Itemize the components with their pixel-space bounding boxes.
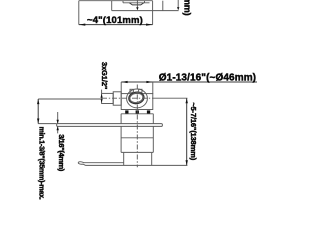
inlet fitting G1/2 nipple <box>102 93 114 103</box>
center line horizontal (dash-dot) <box>102 97 156 99</box>
handle lever inner ellipse <box>129 92 143 103</box>
label 3xG1/2": rotated text <box>100 62 109 90</box>
inlet fitting flange <box>113 92 121 105</box>
dimension min.1-3/8"(35mm)-max.: vertical dim line <box>37 99 39 124</box>
dimension ~4"(101mm): right extension <box>152 1 154 25</box>
label 3xG1/2": leader line with arrows on fitting <box>101 90 103 103</box>
handle lever outer ellipse <box>128 91 145 105</box>
foot center <box>136 110 139 113</box>
bottom line (box bottom + extension to right dim) <box>86 164 188 166</box>
svg-text:3/16"(4mm): 3/16"(4mm) <box>57 134 66 172</box>
column mid section <box>121 126 153 152</box>
wall plate top extension to left dim <box>38 123 56 125</box>
svg-text:Ø1-13/16"(~Ø46mm): Ø1-13/16"(~Ø46mm) <box>159 73 256 84</box>
dimension min.1-3/8"(35mm)-max.: extension line to fitting center <box>38 98 101 100</box>
dimension Ø extension left <box>120 82 122 94</box>
top view: long wall line <box>112 10 179 12</box>
top view: left body edge <box>111 1 113 11</box>
foot right <box>147 110 150 113</box>
paper roll rod hook end <box>78 162 85 166</box>
dimension ~4"(101mm): left extension <box>78 1 80 25</box>
dimension ~5-7/16"(138mm): vertical dim line <box>186 98 188 165</box>
top view: handle trapezoid <box>129 3 143 5</box>
top-right clipped dimension: rotated text (mostly cut off at top) <box>182 0 192 16</box>
dimension Ø1-13/16"(~Ø46mm): text <box>159 73 256 84</box>
center line vertical (dash-dot) <box>136 85 138 168</box>
svg-text:~3/4"(19mm): ~3/4"(19mm) <box>182 0 192 16</box>
dimension ~5-7/16"(138mm): rotated text <box>189 102 198 160</box>
top view: escutcheon front edge line <box>123 1 150 3</box>
svg-text:~5-7/16"(138mm): ~5-7/16"(138mm) <box>189 102 198 160</box>
dimension 3/16"(4mm): vertical line through plate <box>57 112 59 133</box>
foot left <box>125 110 128 113</box>
wall plate <box>57 124 163 127</box>
dimension ~5-7/16"(138mm): top extension line <box>156 97 187 99</box>
dimension ~4"(101mm): dimension line <box>79 24 153 26</box>
column divider line <box>121 137 153 139</box>
dimension 3/16"(4mm): rotated text <box>57 134 66 172</box>
column upper section <box>121 114 153 124</box>
svg-text:3xG1/2": 3xG1/2" <box>100 62 109 90</box>
top screw tab right <box>139 89 142 92</box>
paper roll rod top line <box>84 162 124 164</box>
svg-text:~4"(101mm): ~4"(101mm) <box>87 15 143 26</box>
valve flange dome circle <box>127 89 148 108</box>
dimension Ø1-13/16"(~Ø46mm): line with outward arrows and underline <box>121 81 257 83</box>
dimension min.1-3/8"(35mm)-max.: rotated text <box>37 127 44 200</box>
lower box <box>124 152 152 165</box>
column step <box>121 151 153 153</box>
top view: right body edge <box>162 1 164 11</box>
valve body block <box>121 94 153 110</box>
dimension ~4"(101mm): text <box>87 15 143 26</box>
top view: center line with down arrow <box>136 0 138 10</box>
top view: escutcheon step right <box>144 1 146 3</box>
top-right clipped dimension: leader line and down arrow <box>177 0 179 10</box>
dimension Ø extension right <box>152 82 154 94</box>
top view: wall/outline top line <box>79 0 153 2</box>
base line under feet <box>121 113 153 115</box>
svg-text:min.1-3/8"(35mm)-max.: min.1-3/8"(35mm)-max. <box>37 127 44 200</box>
top screw tab left <box>130 89 133 92</box>
